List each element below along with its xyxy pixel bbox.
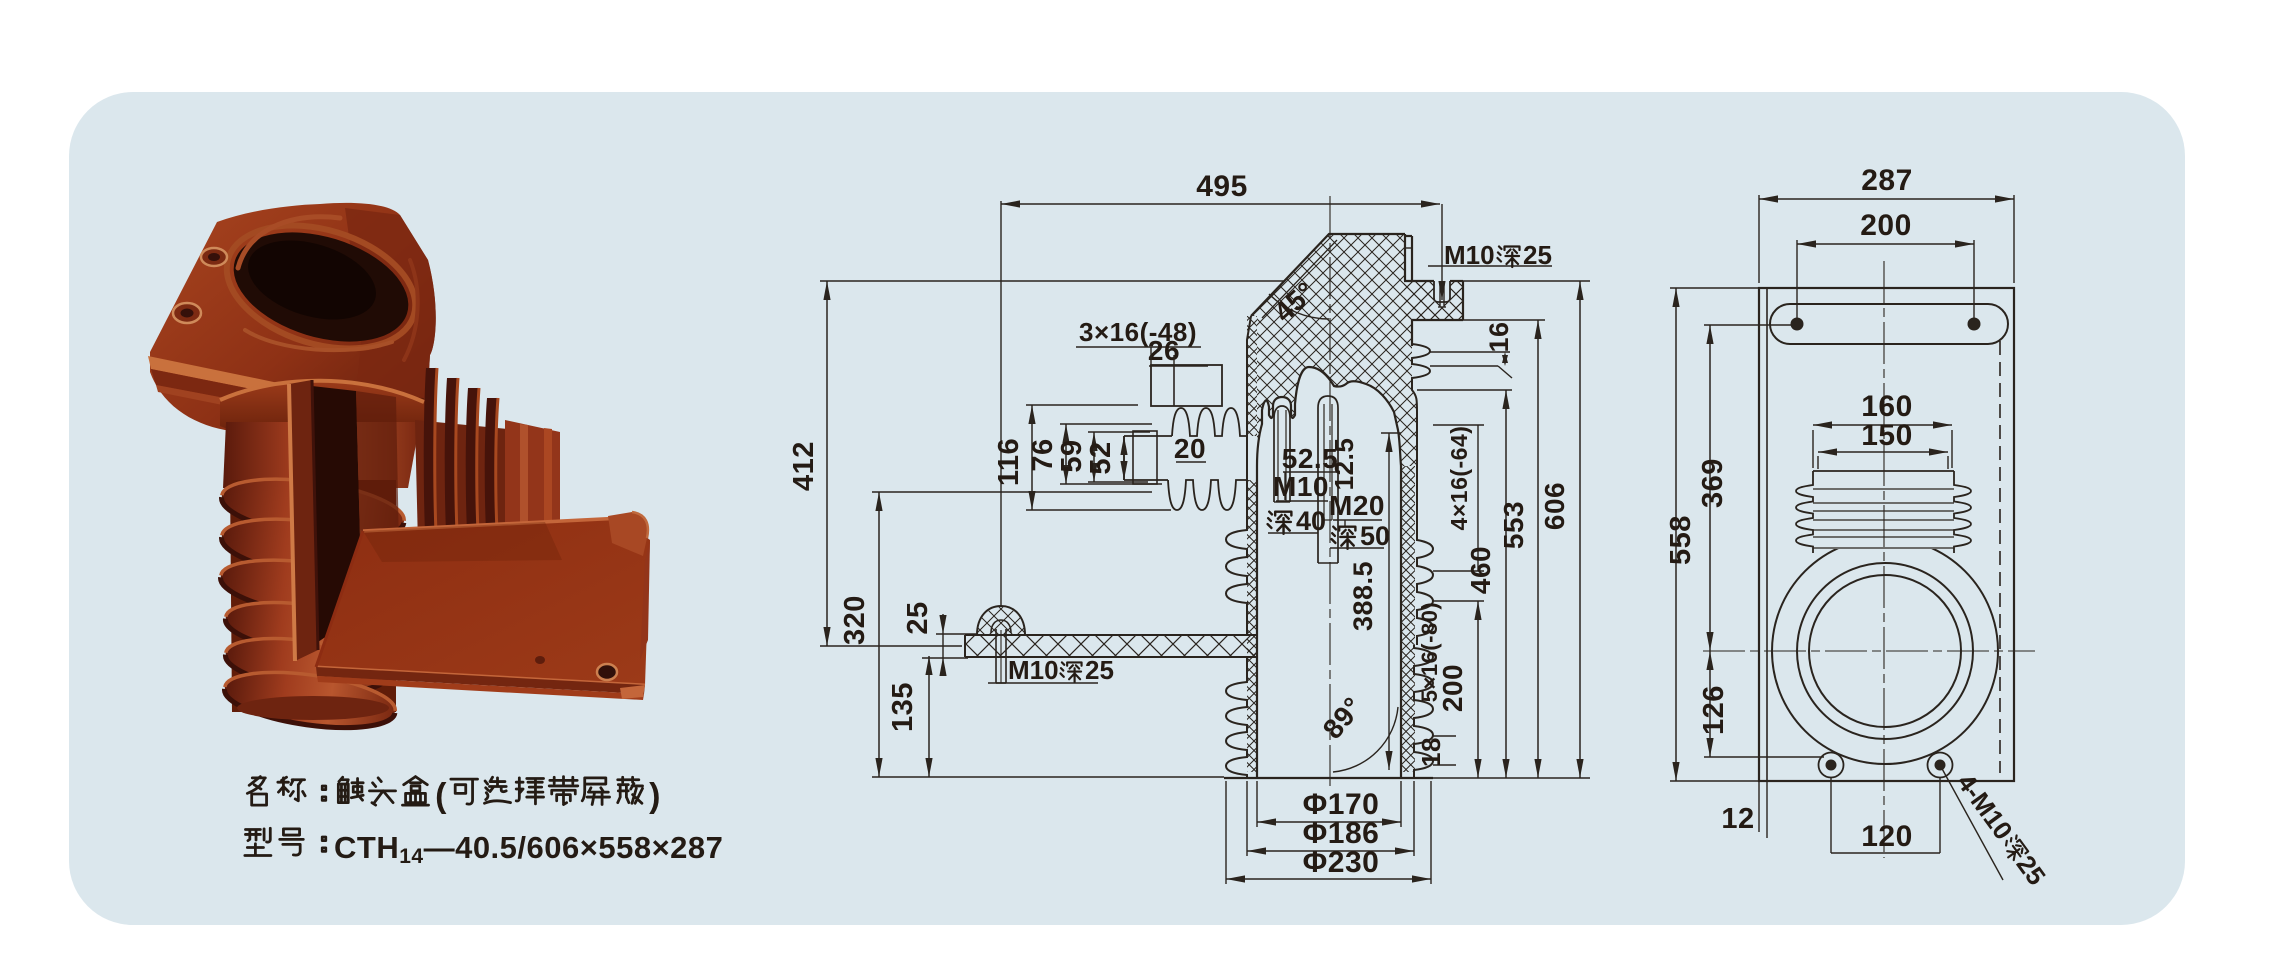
svg-text:25: 25 [1085, 655, 1114, 685]
svg-text:(: ( [435, 777, 447, 815]
svg-text:52: 52 [1085, 441, 1117, 474]
svg-text:25: 25 [2011, 850, 2052, 891]
svg-text:16: 16 [1484, 321, 1514, 352]
svg-text:320: 320 [839, 595, 871, 645]
svg-text:12.5: 12.5 [1329, 438, 1359, 491]
svg-text:553: 553 [1498, 501, 1529, 549]
svg-text:CTH14—40.5/606×558×287: CTH14—40.5/606×558×287 [334, 830, 723, 868]
svg-text:M20: M20 [1329, 490, 1385, 521]
svg-text:): ) [649, 777, 661, 815]
svg-text:25: 25 [1523, 240, 1552, 270]
svg-text:495: 495 [1196, 170, 1248, 203]
svg-text:369: 369 [1697, 458, 1729, 508]
svg-text:40: 40 [1296, 506, 1326, 536]
svg-text:M10: M10 [1444, 240, 1495, 270]
svg-text:126: 126 [1698, 685, 1730, 735]
svg-text:200: 200 [1860, 209, 1912, 242]
svg-text:25: 25 [902, 601, 934, 634]
svg-text:76: 76 [1027, 438, 1059, 471]
svg-text:M10: M10 [1273, 471, 1329, 502]
svg-text:Φ230: Φ230 [1303, 846, 1380, 879]
svg-text:135: 135 [887, 682, 919, 732]
svg-text:50: 50 [1360, 521, 1390, 551]
svg-text:150: 150 [1861, 419, 1913, 452]
svg-text:18: 18 [1416, 737, 1446, 767]
svg-text:116: 116 [993, 438, 1025, 486]
svg-text:412: 412 [788, 441, 820, 491]
svg-text:4×16(-64): 4×16(-64) [1446, 426, 1472, 531]
svg-text:M10: M10 [1008, 655, 1059, 685]
svg-text:460: 460 [1465, 546, 1496, 594]
svg-text:20: 20 [1174, 433, 1206, 464]
svg-text:287: 287 [1861, 164, 1913, 197]
svg-text:4-M10: 4-M10 [1951, 768, 2019, 845]
svg-text:12: 12 [1721, 803, 1754, 835]
svg-text:558: 558 [1665, 515, 1697, 565]
svg-text:59: 59 [1056, 439, 1088, 472]
svg-text:388.5: 388.5 [1348, 561, 1378, 631]
svg-text:5×16(-80): 5×16(-80) [1417, 602, 1442, 703]
svg-text:606: 606 [1539, 482, 1570, 530]
svg-text:89°: 89° [1317, 691, 1369, 745]
svg-text:120: 120 [1861, 820, 1913, 853]
svg-text:26: 26 [1148, 335, 1180, 366]
